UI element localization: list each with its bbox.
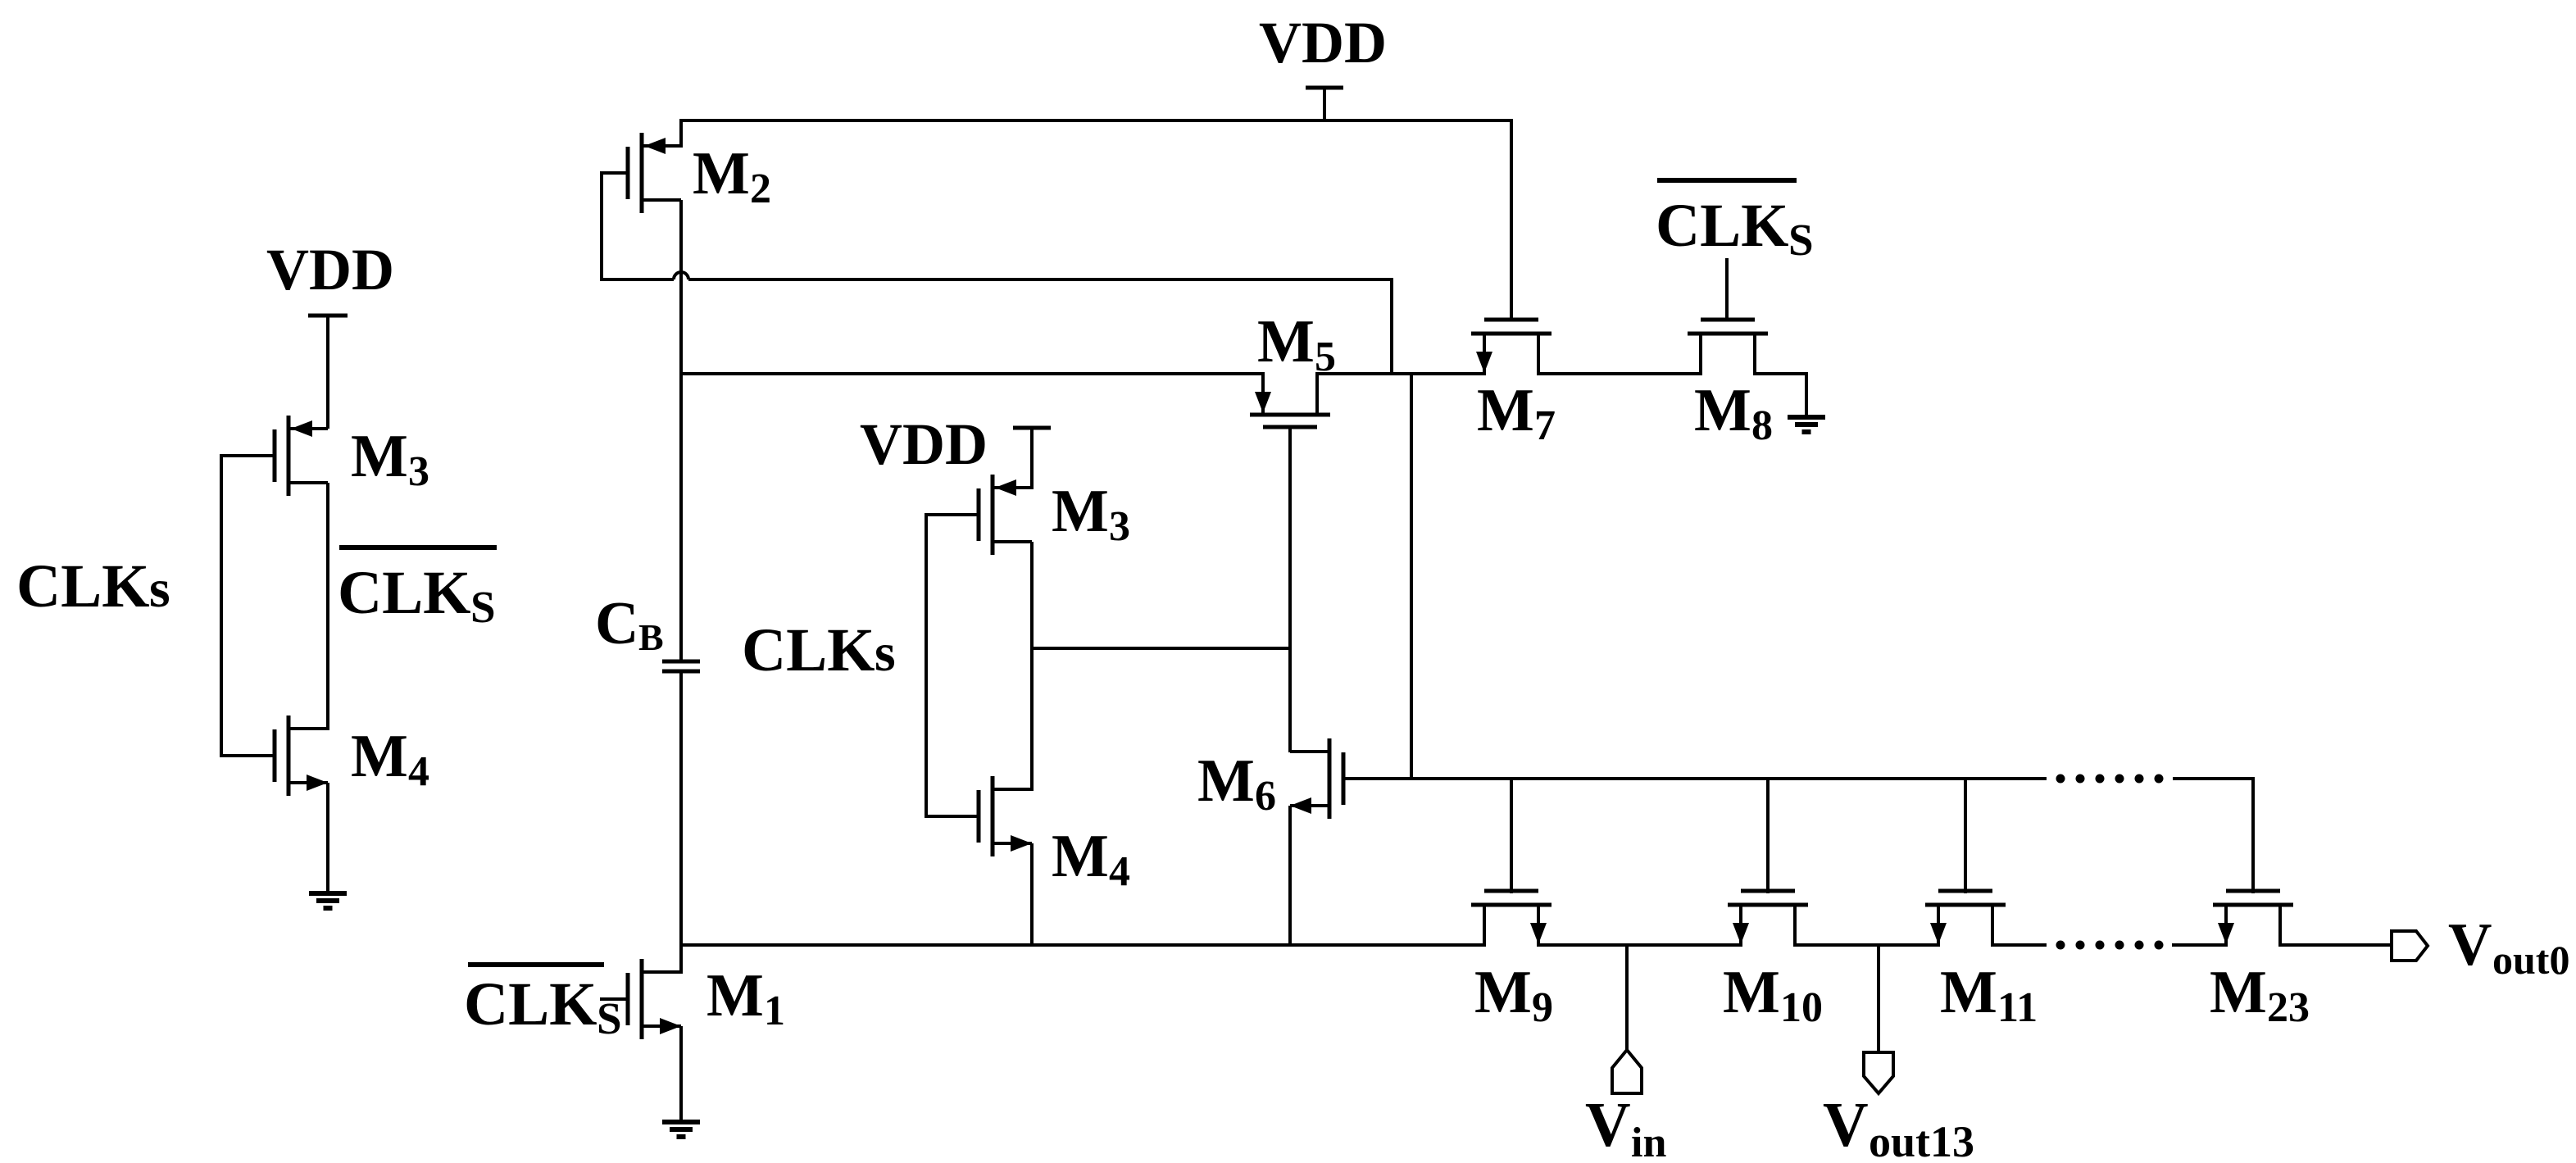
svg-text:M: M [1474,959,1532,1026]
svg-text:s: s [875,623,896,683]
terminal V_in (pentagon up) [1612,1050,1642,1093]
wire mid rail segment D (M8 to ground) [1753,374,1806,417]
label M4 (left) [351,723,429,795]
label V_in [1585,1089,1666,1163]
transistor M4 (middle NMOS) [979,776,1032,856]
svg-text:CLK: CLK [16,552,150,620]
svg-text:M: M [1694,377,1751,444]
wire junction down to M6 gate line [1410,374,1413,780]
label M2 [693,140,771,212]
svg-text:M: M [1723,959,1780,1026]
label M11 [1940,959,2038,1031]
svg-text:M: M [693,140,750,207]
svg-text:23: 23 [2267,984,2310,1031]
label M10 [1723,959,1823,1031]
capacitor C_B bottom plate [662,670,700,674]
svg-text:M: M [706,962,764,1029]
terminal V_out13 (pentagon down) [1864,1052,1893,1093]
svg-text:CLK: CLK [1656,192,1789,260]
svg-text:M: M [1940,959,1997,1026]
node CLKs label (middle) [742,616,896,684]
svg-text:S: S [1788,215,1814,265]
svg-text:M: M [1052,823,1109,890]
VDD supply bar (middle) [1013,426,1051,430]
svg-text:S: S [470,582,496,632]
svg-text:1: 1 [764,988,785,1034]
VDD supply bar (left inverter) [308,314,348,318]
svg-text:s: s [149,559,170,619]
svg-text:M: M [2210,959,2267,1026]
label M1 [706,962,785,1034]
wire gate loop vertical (left inverter) [220,454,223,757]
transistor M3 (left inverter PMOS) [275,416,328,496]
wire V_in stub [1625,945,1629,1052]
svg-text:M: M [351,723,408,790]
svg-text:B: B [638,616,664,658]
wire M2 gate lead [602,171,629,175]
svg-text:10: 10 [1780,984,1823,1031]
wire VDD stub (top center) [1323,88,1326,122]
svg-text:4: 4 [408,748,429,795]
wire gate-feedback horizontal with hop over node [602,272,1393,279]
svg-text:CLK: CLK [464,970,597,1038]
label M3 (left) [351,423,429,495]
ground (M1 source) [662,1122,700,1137]
svg-text:6: 6 [1255,773,1276,820]
label M6 [1197,747,1276,820]
wire VDD stub to M3 drain (middle) [1030,428,1034,489]
svg-text:CLK: CLK [742,616,875,684]
wire mid rail segment C (M7 to M8) [1537,372,1702,375]
svg-text:8: 8 [1751,402,1773,449]
wire gate line to M23 [2173,779,2253,893]
power label VDD (left inverter) [266,237,394,302]
svg-text:CLK: CLK [338,559,471,627]
wire gate lead M3 (middle) [926,513,980,516]
transistor M2 (PMOS) [628,133,681,213]
svg-text:M: M [1257,308,1315,375]
wire gate loop vertical (middle) [925,513,928,818]
svg-text:V: V [1823,1089,1869,1160]
transistor M3 (middle PMOS) [979,475,1032,555]
wire M9 gate stub [1510,779,1513,893]
capacitor C_B top plate [662,660,700,664]
wire M2 gate loop down [600,171,603,281]
label M4 (middle) [1052,823,1130,895]
wire M4 source to ground (left) [326,783,329,893]
transistor M11 (horizontal) [1925,891,2006,945]
node CLKs-bar label (M1 gate) [464,965,622,1043]
wire gate line (M6 gate to output row) [1345,777,2047,780]
wire bottom rail segment E [2172,943,2228,947]
svg-text:out13: out13 [1869,1117,1974,1163]
svg-text:VDD: VDD [860,411,988,477]
transistor M9 (horizontal) [1471,891,1552,945]
wire mid rail segment B (M5 to M7) [1315,372,1486,375]
ground (M8 source) [1788,417,1825,432]
svg-text:V: V [1585,1089,1631,1160]
svg-text:4: 4 [1109,848,1130,895]
wire inverter output vertical (middle) [1030,542,1034,791]
wire bottom rail segment C [1793,943,1940,947]
svg-text:VDD: VDD [1259,10,1387,75]
wire inverter output to M5 gate / M6 drain [1032,647,1292,650]
transistor M6 (NMOS, mirrored) [1290,738,1343,819]
wire VDD stub to M3 drain (left) [326,316,329,429]
label M9 [1474,959,1553,1031]
label V_out0 [2448,911,2569,983]
node CLKs label (left) [16,552,170,620]
label C_B [595,590,664,658]
svg-text:3: 3 [408,448,429,495]
wire M11 gate stub [1964,779,1967,893]
transistor M5 (PMOS, horizontal) [1250,374,1330,427]
svg-text:2: 2 [750,166,771,212]
label M7 [1477,377,1556,449]
wire gate line dots (ellipsis) [2056,775,2164,784]
wire top rail from M2 drain to M7 gate [681,120,1511,319]
svg-text:in: in [1631,1120,1666,1163]
terminal V_out0 (pentagon right) [2392,931,2428,961]
wire bottom rail dots (ellipsis) [2056,941,2164,950]
transistor M7 (NMOS, horizontal) [1471,320,1552,374]
transistor M8 (horizontal) [1688,320,1768,374]
node CLKs-bar label (above M8) [1656,180,1814,265]
svg-text:9: 9 [1532,984,1553,1031]
svg-text:VDD: VDD [266,237,394,302]
transistor M1 (NMOS) [628,959,681,1039]
wire bottom rail segment F (M23 to Vout0) [2278,943,2392,947]
node T-junction mid-rail at x829 [679,372,683,375]
label V_out13 [1823,1089,1974,1163]
transistor M10 (horizontal) [1728,891,1808,945]
svg-text:V: V [2448,911,2492,979]
wire gate lead M3 (left) [221,454,276,457]
svg-text:out0: out0 [2492,937,2569,983]
wire M4 source down to bottom rail (middle) [1030,843,1034,947]
transistor M23 (horizontal) [2213,891,2293,945]
wire bottom rail segment A [681,943,1486,947]
label M3 (middle) [1052,478,1130,550]
svg-text:C: C [595,590,638,657]
wire M5 gate down to M6 drain [1288,427,1292,752]
ground (left inverter) [309,893,347,908]
wire mid rail segment A (node to M5) [679,372,1265,375]
svg-text:M: M [1477,377,1534,444]
transistor M4 (left inverter NMOS) [275,716,328,796]
svg-text:11: 11 [1997,984,2038,1031]
label M8 [1694,377,1773,449]
wire V_out13 stub [1877,945,1880,1054]
svg-text:M: M [1197,747,1255,815]
wire M2 source down to C_B top plate [679,200,683,661]
svg-text:7: 7 [1534,402,1556,449]
wire gate lead M4 (middle) [926,815,980,818]
wire M1 source to ground [679,1026,683,1122]
wire C_B bottom to M1 drain node [679,671,683,974]
wire feedback down to mid rail [1390,279,1393,375]
svg-text:M: M [351,423,408,490]
wire M1 gate lead [600,997,629,1001]
node CLKs-bar output label (left) [338,547,497,632]
label M5 [1257,308,1336,380]
wire inverter output vertical (left) [326,483,329,730]
wire gate lead M4 (left) [221,754,276,757]
power label VDD (top center) [1259,10,1387,75]
wire bottom rail segment D [1991,943,2047,947]
wire M6 source down to bottom rail [1288,806,1292,947]
wire bottom rail segment B [1537,943,1742,947]
label M23 [2210,959,2310,1031]
svg-text:M: M [1052,478,1109,545]
wire M8 gate stub [1725,258,1729,319]
power label VDD (middle) [860,411,988,477]
wire M10 gate stub [1766,779,1770,893]
svg-text:3: 3 [1109,503,1130,550]
VDD supply bar (top center) [1306,86,1343,90]
svg-text:S: S [597,993,622,1043]
